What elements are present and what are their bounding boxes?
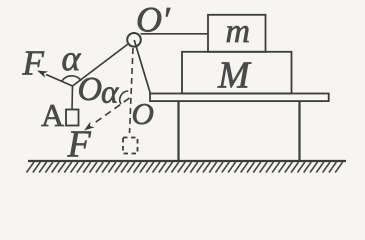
table leg left [177,101,179,160]
ground line [28,160,346,162]
dashed square (block A alternate position) [123,138,138,154]
tabletop [150,94,329,102]
force F arrow at O (solid, up-left) [37,71,73,87]
ground hatching [27,162,343,173]
svg-text:O: O [78,71,103,108]
svg-text:O′: O′ [136,0,171,40]
angle arc at lower O [120,91,129,104]
pulley at O' [127,33,141,47]
svg-text:α: α [101,75,119,111]
svg-text:A: A [41,97,64,133]
dashed vertical string [130,48,134,133]
svg-text:M: M [217,55,252,97]
block m [208,15,266,52]
svg-text:F: F [67,124,92,166]
bracket pulley to table corner [134,40,150,94]
block A square [66,110,79,126]
string pulley to O [73,44,129,86]
svg-text:m: m [226,13,251,50]
block M [182,52,292,94]
dashed force F arrow at lower O [84,98,130,131]
angle arc at upper O [62,76,81,81]
table leg right [298,101,300,160]
svg-text:O: O [132,96,154,131]
string from pulley to block m [141,33,209,35]
cord from O to block A [71,86,74,110]
svg-text:F: F [22,44,45,83]
